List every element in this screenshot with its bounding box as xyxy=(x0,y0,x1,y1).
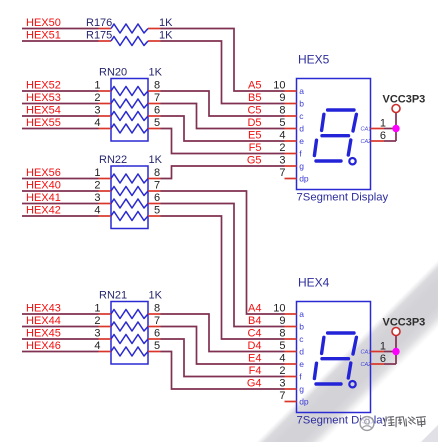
HEX4 pin 9 (b) stub xyxy=(285,326,297,328)
RN21 outline box xyxy=(111,302,148,365)
svg-text:B4: B4 xyxy=(248,315,261,327)
RN22 resistor element 4 xyxy=(111,212,148,221)
svg-text:8: 8 xyxy=(154,80,160,92)
RN21 pin 6 stub xyxy=(148,338,161,340)
svg-text:1K: 1K xyxy=(149,67,163,79)
R175 pin 2 stub xyxy=(148,40,161,42)
svg-text:C4: C4 xyxy=(247,328,261,340)
RN22 pin 3 stub xyxy=(99,203,112,205)
HEX4 pin 8 (c) stub xyxy=(285,338,297,340)
svg-text:a: a xyxy=(299,309,304,319)
svg-text:5: 5 xyxy=(279,340,285,352)
svg-text:4: 4 xyxy=(94,340,100,352)
svg-text:1: 1 xyxy=(94,80,100,92)
svg-text:CA2: CA2 xyxy=(361,139,372,145)
RN22 pin 2 stub xyxy=(99,190,112,192)
wire HEX46 xyxy=(22,351,99,353)
svg-text:7Segment Display: 7Segment Display xyxy=(297,192,389,204)
HEX5 digit seg e xyxy=(314,140,316,155)
wire CA1 pin to VCC xyxy=(384,128,396,130)
wire VCC vertical xyxy=(395,336,397,365)
RN21 pin 2 stub xyxy=(99,326,112,328)
RN22 resistor element 3 xyxy=(111,199,148,208)
svg-text:g: g xyxy=(299,161,304,171)
wire net D4 xyxy=(161,314,285,352)
svg-text:3: 3 xyxy=(94,105,100,117)
R175 pin 1 stub xyxy=(99,40,112,42)
wire net D5 xyxy=(161,104,285,129)
HEX5 pin 5 (d) stub xyxy=(285,128,297,130)
svg-text:A4: A4 xyxy=(248,303,261,315)
svg-text:D4: D4 xyxy=(247,340,261,352)
wire CA1 pin to VCC xyxy=(384,351,396,353)
svg-text:6: 6 xyxy=(154,105,160,117)
svg-text:e: e xyxy=(299,359,304,369)
RN20 resistor element 3 xyxy=(111,112,148,121)
svg-text:HEX5: HEX5 xyxy=(298,53,330,67)
RN20 resistor element 1 xyxy=(111,87,148,96)
HEX5 digit seg d xyxy=(316,159,341,162)
svg-text:HEX41: HEX41 xyxy=(26,192,61,204)
wire VCC vertical xyxy=(395,113,397,142)
svg-text:7: 7 xyxy=(279,390,285,402)
svg-text:b: b xyxy=(299,99,304,109)
svg-text:6: 6 xyxy=(154,192,160,204)
svg-text:3: 3 xyxy=(279,378,285,390)
wire HEX45 xyxy=(22,338,99,340)
svg-text:HEX43: HEX43 xyxy=(26,302,61,314)
HEX4 pin 10 (a) stub xyxy=(285,313,297,315)
wire net G5 xyxy=(161,166,285,179)
RN20 resistor element 4 xyxy=(111,124,148,133)
RN22 pin 8 stub xyxy=(148,178,161,180)
svg-text:RN22: RN22 xyxy=(99,154,127,166)
RN21 resistor element 3 xyxy=(111,335,148,344)
wire net A5 (R176 to HEX5 pin a) xyxy=(161,29,285,92)
svg-text:E5: E5 xyxy=(248,130,261,142)
HEX5 pin 2 (f) stub xyxy=(285,153,297,155)
svg-text:3: 3 xyxy=(279,155,285,167)
svg-text:4: 4 xyxy=(94,205,100,217)
HEX4 digit seg c xyxy=(348,363,351,378)
svg-text:G5: G5 xyxy=(247,155,262,167)
svg-text:7: 7 xyxy=(279,167,285,179)
HEX5 pin 1 (CA1) stub xyxy=(371,128,385,130)
HEX5 digit seg c xyxy=(348,140,351,155)
RN22 pin 7 stub xyxy=(148,190,161,192)
HEX5 pin 10 (a) stub xyxy=(285,90,297,92)
RN20 pin 2 stub xyxy=(99,103,112,105)
svg-text:F4: F4 xyxy=(249,365,262,377)
wire CA2 pin to VCC xyxy=(384,140,396,142)
watermark text xyxy=(385,416,427,428)
wire junction dot xyxy=(392,125,399,132)
HEX4 pin 4 (e) stub xyxy=(285,363,297,365)
svg-text:7: 7 xyxy=(154,92,160,104)
RN21 resistor element 4 xyxy=(111,347,148,356)
svg-text:9: 9 xyxy=(279,92,285,104)
svg-text:2: 2 xyxy=(94,315,100,327)
svg-text:c: c xyxy=(299,111,304,121)
wire CA2 pin to VCC xyxy=(384,363,396,365)
RN20 resistor element 2 xyxy=(111,99,148,108)
wire net E5 xyxy=(161,116,285,141)
wire net A4 xyxy=(161,191,285,314)
HEX5 digit seg b xyxy=(353,114,356,131)
RN20 pin 7 stub xyxy=(148,103,161,105)
HEX5 digit seg f xyxy=(322,114,324,130)
svg-text:HEX56: HEX56 xyxy=(26,167,61,179)
RN20 pin 1 stub xyxy=(99,90,112,92)
wire HEX55 xyxy=(22,128,99,130)
svg-text:dp: dp xyxy=(299,174,309,184)
RN20 pin 5 stub xyxy=(148,128,161,130)
wire net F4 xyxy=(161,339,285,377)
wire net E4 xyxy=(161,327,285,365)
RN22 pin 6 stub xyxy=(148,203,161,205)
VCC3P3 power symbol circle xyxy=(392,105,400,113)
svg-text:2: 2 xyxy=(94,180,100,192)
wire HEX41 xyxy=(22,203,99,205)
HEX5 pin 3 (g) stub xyxy=(285,165,297,167)
svg-text:5: 5 xyxy=(279,117,285,129)
wire HEX51 xyxy=(22,40,99,42)
svg-text:b: b xyxy=(299,322,304,332)
svg-text:HEX44: HEX44 xyxy=(26,315,61,327)
HEX5 digit seg a xyxy=(328,108,354,111)
svg-text:E4: E4 xyxy=(248,353,261,365)
RN20 pin 4 stub xyxy=(99,128,112,130)
svg-text:8: 8 xyxy=(154,303,160,315)
svg-text:RN21: RN21 xyxy=(99,290,127,302)
HEX4 digit seg b xyxy=(353,337,356,354)
HEX5 outline box xyxy=(297,79,371,190)
svg-text:e: e xyxy=(299,136,304,146)
resistor R176 xyxy=(86,17,173,33)
svg-text:d: d xyxy=(299,347,304,357)
HEX4 digit seg e xyxy=(314,363,316,378)
RN22 pin 5 stub xyxy=(148,215,161,217)
HEX4 pin 3 (g) stub xyxy=(285,388,297,390)
svg-text:g: g xyxy=(299,384,304,394)
svg-text:10: 10 xyxy=(273,303,285,315)
svg-text:8: 8 xyxy=(279,328,285,340)
svg-text:1: 1 xyxy=(94,167,100,179)
svg-text:8: 8 xyxy=(154,167,160,179)
RN22 pin 1 stub xyxy=(99,178,112,180)
svg-text:1K: 1K xyxy=(159,30,173,42)
svg-text:RN20: RN20 xyxy=(99,67,127,79)
RN21 pin 7 stub xyxy=(148,326,161,328)
svg-text:C5: C5 xyxy=(247,105,261,117)
svg-text:4: 4 xyxy=(94,117,100,129)
svg-text:VCC3P3: VCC3P3 xyxy=(383,316,426,328)
wire HEX50 xyxy=(22,28,99,30)
svg-text:3: 3 xyxy=(94,328,100,340)
HEX5 digit decimal point xyxy=(349,158,355,164)
R175 body xyxy=(111,37,148,46)
svg-text:1: 1 xyxy=(94,303,100,315)
svg-text:4: 4 xyxy=(279,130,285,142)
svg-text:F5: F5 xyxy=(249,142,262,154)
svg-text:HEX45: HEX45 xyxy=(26,327,61,339)
svg-text:2: 2 xyxy=(279,142,285,154)
HEX4 pin 1 (CA1) stub xyxy=(371,351,385,353)
HEX4 digit seg a xyxy=(328,331,354,334)
svg-text:HEX42: HEX42 xyxy=(26,204,61,216)
RN22 resistor element 2 xyxy=(111,187,148,196)
watermark logo xyxy=(360,417,374,431)
svg-text:a: a xyxy=(299,86,304,96)
wire net C5 xyxy=(161,91,285,116)
svg-text:G4: G4 xyxy=(247,378,262,390)
svg-text:6: 6 xyxy=(154,328,160,340)
resistor network RN22 xyxy=(94,154,162,229)
HEX4 digit seg f xyxy=(322,337,324,353)
svg-text:HEX40: HEX40 xyxy=(26,179,61,191)
svg-text:3: 3 xyxy=(94,192,100,204)
wire HEX40 xyxy=(22,190,99,192)
svg-text:HEX52: HEX52 xyxy=(26,79,61,91)
svg-text:R176: R176 xyxy=(86,17,112,29)
RN21 pin 1 stub xyxy=(99,313,112,315)
svg-text:CA1: CA1 xyxy=(361,127,372,133)
wire net B5 (R175 to HEX5 pin b) xyxy=(161,41,285,104)
VCC3P3 power symbol circle xyxy=(392,328,400,336)
7-segment display HEX5 xyxy=(273,53,388,204)
HEX4 outline box xyxy=(297,302,371,413)
svg-text:7Segment Display: 7Segment Display xyxy=(297,415,389,427)
RN21 pin 3 stub xyxy=(99,338,112,340)
wire HEX44 xyxy=(22,326,99,328)
watermark diagonal band xyxy=(252,242,438,442)
svg-text:A5: A5 xyxy=(248,80,261,92)
wire HEX43 xyxy=(22,313,99,315)
HEX4 pin 7 (dp) stub xyxy=(285,401,297,403)
HEX4 digit seg d xyxy=(316,382,341,385)
svg-text:10: 10 xyxy=(273,80,285,92)
R176 pin 2 stub xyxy=(148,28,161,30)
svg-text:2: 2 xyxy=(279,365,285,377)
svg-text:8: 8 xyxy=(279,105,285,117)
svg-text:HEX54: HEX54 xyxy=(26,104,61,116)
svg-text:CA2: CA2 xyxy=(361,362,372,368)
RN21 resistor element 2 xyxy=(111,322,148,331)
RN22 outline box xyxy=(111,166,148,229)
svg-text:D5: D5 xyxy=(247,117,261,129)
svg-text:1K: 1K xyxy=(159,17,173,29)
svg-text:HEX53: HEX53 xyxy=(26,92,61,104)
svg-text:CA1: CA1 xyxy=(361,350,372,356)
HEX5 pin 4 (e) stub xyxy=(285,140,297,142)
wire net G4 xyxy=(161,352,285,390)
svg-text:2: 2 xyxy=(94,92,100,104)
HEX4 pin 5 (d) stub xyxy=(285,351,297,353)
svg-text:d: d xyxy=(299,124,304,134)
R176 pin 1 stub xyxy=(99,28,112,30)
wire HEX42 xyxy=(22,215,99,217)
wire HEX53 xyxy=(22,103,99,105)
HEX4 pin 2 (f) stub xyxy=(285,376,297,378)
svg-text:7: 7 xyxy=(154,315,160,327)
svg-text:B5: B5 xyxy=(248,92,261,104)
7-segment display HEX4 xyxy=(273,276,388,427)
wire net C4 xyxy=(161,216,285,339)
HEX4 digit seg g2 xyxy=(322,357,349,360)
RN21 pin 8 stub xyxy=(148,313,161,315)
RN21 pin 5 stub xyxy=(148,351,161,353)
svg-text:VCC3P3: VCC3P3 xyxy=(383,93,426,105)
svg-text:c: c xyxy=(299,334,304,344)
svg-text:HEX46: HEX46 xyxy=(26,340,61,352)
wire HEX56 xyxy=(22,178,99,180)
svg-text:7: 7 xyxy=(154,180,160,192)
RN20 pin 6 stub xyxy=(148,115,161,117)
wire HEX52 xyxy=(22,90,99,92)
wire net B4 xyxy=(161,204,285,327)
resistor network RN21 xyxy=(94,290,162,365)
svg-text:HEX50: HEX50 xyxy=(26,17,61,29)
svg-text:HEX4: HEX4 xyxy=(298,276,330,290)
svg-text:4: 4 xyxy=(279,353,285,365)
svg-text:1K: 1K xyxy=(149,154,163,166)
resistor R175 xyxy=(86,30,173,46)
HEX5 digit seg g2 xyxy=(322,134,349,137)
RN22 pin 4 stub xyxy=(99,215,112,217)
resistor network RN20 xyxy=(94,67,162,142)
svg-text:5: 5 xyxy=(154,340,160,352)
RN20 pin 8 stub xyxy=(148,90,161,92)
wire net F5 xyxy=(161,129,285,154)
svg-text:5: 5 xyxy=(154,117,160,129)
svg-text:HEX55: HEX55 xyxy=(26,117,61,129)
wire junction dot xyxy=(392,348,399,355)
svg-text:dp: dp xyxy=(299,397,309,407)
RN20 pin 3 stub xyxy=(99,115,112,117)
wire HEX54 xyxy=(22,115,99,117)
RN20 outline box xyxy=(111,79,148,142)
svg-text:9: 9 xyxy=(279,315,285,327)
HEX4 digit decimal point xyxy=(349,381,355,387)
HEX5 pin 6 (CA2) stub xyxy=(371,140,385,142)
svg-text:5: 5 xyxy=(154,205,160,217)
svg-text:HEX51: HEX51 xyxy=(26,29,61,41)
HEX5 pin 9 (b) stub xyxy=(285,103,297,105)
svg-text:1K: 1K xyxy=(149,290,163,302)
watermark corner triangle xyxy=(421,425,438,442)
power VCC3P3 (HEX4 common anodes) xyxy=(383,316,426,364)
HEX5 pin 7 (dp) stub xyxy=(285,178,297,180)
power VCC3P3 (HEX5 common anodes) xyxy=(383,93,426,141)
HEX5 pin 8 (c) stub xyxy=(285,115,297,117)
svg-text:R175: R175 xyxy=(86,30,112,42)
HEX4 pin 6 (CA2) stub xyxy=(371,363,385,365)
RN21 resistor element 1 xyxy=(111,310,148,319)
RN22 resistor element 1 xyxy=(111,174,148,183)
RN21 pin 4 stub xyxy=(99,351,112,353)
R176 body xyxy=(111,24,148,33)
